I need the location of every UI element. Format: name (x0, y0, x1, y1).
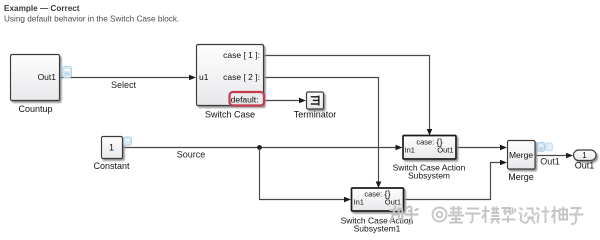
badge at Constant output (124, 137, 132, 145)
svg-text:case [ 1 ]:: case [ 1 ]: (223, 50, 260, 60)
基 (448, 206, 464, 223)
svg-text:case [ 2 ]:: case [ 2 ]: (223, 72, 260, 82)
wire default to Terminator (264, 100, 301, 102)
wire Select (Countup to Switch Case) (60, 77, 191, 79)
柚 (552, 206, 568, 224)
型 (502, 207, 516, 223)
svg-text:Subsystem: Subsystem (408, 171, 450, 181)
svg-text:Merge: Merge (509, 150, 533, 160)
svg-text:Countup: Countup (18, 104, 52, 114)
svg-text:Example — Correct: Example — Correct (4, 4, 80, 13)
svg-text:Select: Select (111, 80, 137, 90)
知 (390, 206, 403, 223)
wire Subsystem Out1 to Merge in1 (456, 147, 502, 149)
子 (569, 208, 584, 224)
terminator icon (311, 96, 319, 106)
block Terminator (307, 92, 324, 109)
模 (482, 206, 500, 224)
svg-text:default:: default: (231, 95, 259, 105)
wire Subsystem1 Out1 to Merge in2 (404, 163, 502, 200)
svg-text:Source: Source (177, 150, 206, 160)
block Countup (subsystem) (11, 55, 60, 101)
svg-text:Merge: Merge (508, 172, 534, 182)
svg-text:Terminator: Terminator (294, 110, 337, 120)
svg-text:Out1: Out1 (38, 72, 57, 82)
wire case[1] to Subsystem action port (264, 56, 430, 132)
wire Merge to Out1 port (535, 155, 568, 157)
wire case[2] to Subsystem1 action port (264, 78, 379, 184)
svg-text:Out1: Out1 (385, 198, 401, 207)
@ (433, 208, 447, 222)
svg-text:Constant: Constant (93, 161, 130, 171)
svg-text:Switch Case: Switch Case (205, 110, 255, 120)
乎 (405, 206, 419, 224)
junction dot (257, 145, 262, 150)
block Constant (102, 137, 123, 159)
svg-text:Using default behavior in the: Using default behavior in the Switch Cas… (4, 14, 179, 23)
svg-text:In1: In1 (354, 198, 364, 207)
于 (465, 209, 481, 223)
watermark 知乎 @基于模型设计柚子 (drawn pseudo-glyphs) (390, 206, 584, 225)
svg-text:1: 1 (109, 143, 114, 153)
svg-text:u1: u1 (199, 72, 209, 82)
设 (519, 208, 536, 224)
block Switch Case Action Subsystem1 (352, 188, 404, 211)
block Switch Case Action Subsystem (403, 136, 456, 160)
badge (log signal) at Countup output (63, 67, 72, 78)
block Switch Case (197, 45, 264, 106)
svg-text:Subsystem1: Subsystem1 (354, 224, 401, 234)
block Out1 (outport) (574, 150, 597, 161)
svg-text:Out1: Out1 (575, 161, 595, 171)
badges at Merge output (538, 143, 553, 152)
svg-text:Out1: Out1 (437, 146, 453, 155)
svg-text:In1: In1 (405, 146, 415, 155)
svg-text:1: 1 (582, 151, 587, 160)
red highlight around default (230, 92, 265, 106)
计 (536, 207, 550, 224)
wire branch to Subsystem1 In1 (260, 148, 346, 200)
svg-text:Out1: Out1 (540, 157, 560, 167)
block Merge (508, 141, 536, 170)
wire Source (Constant to Subsystem In1) (123, 147, 397, 149)
